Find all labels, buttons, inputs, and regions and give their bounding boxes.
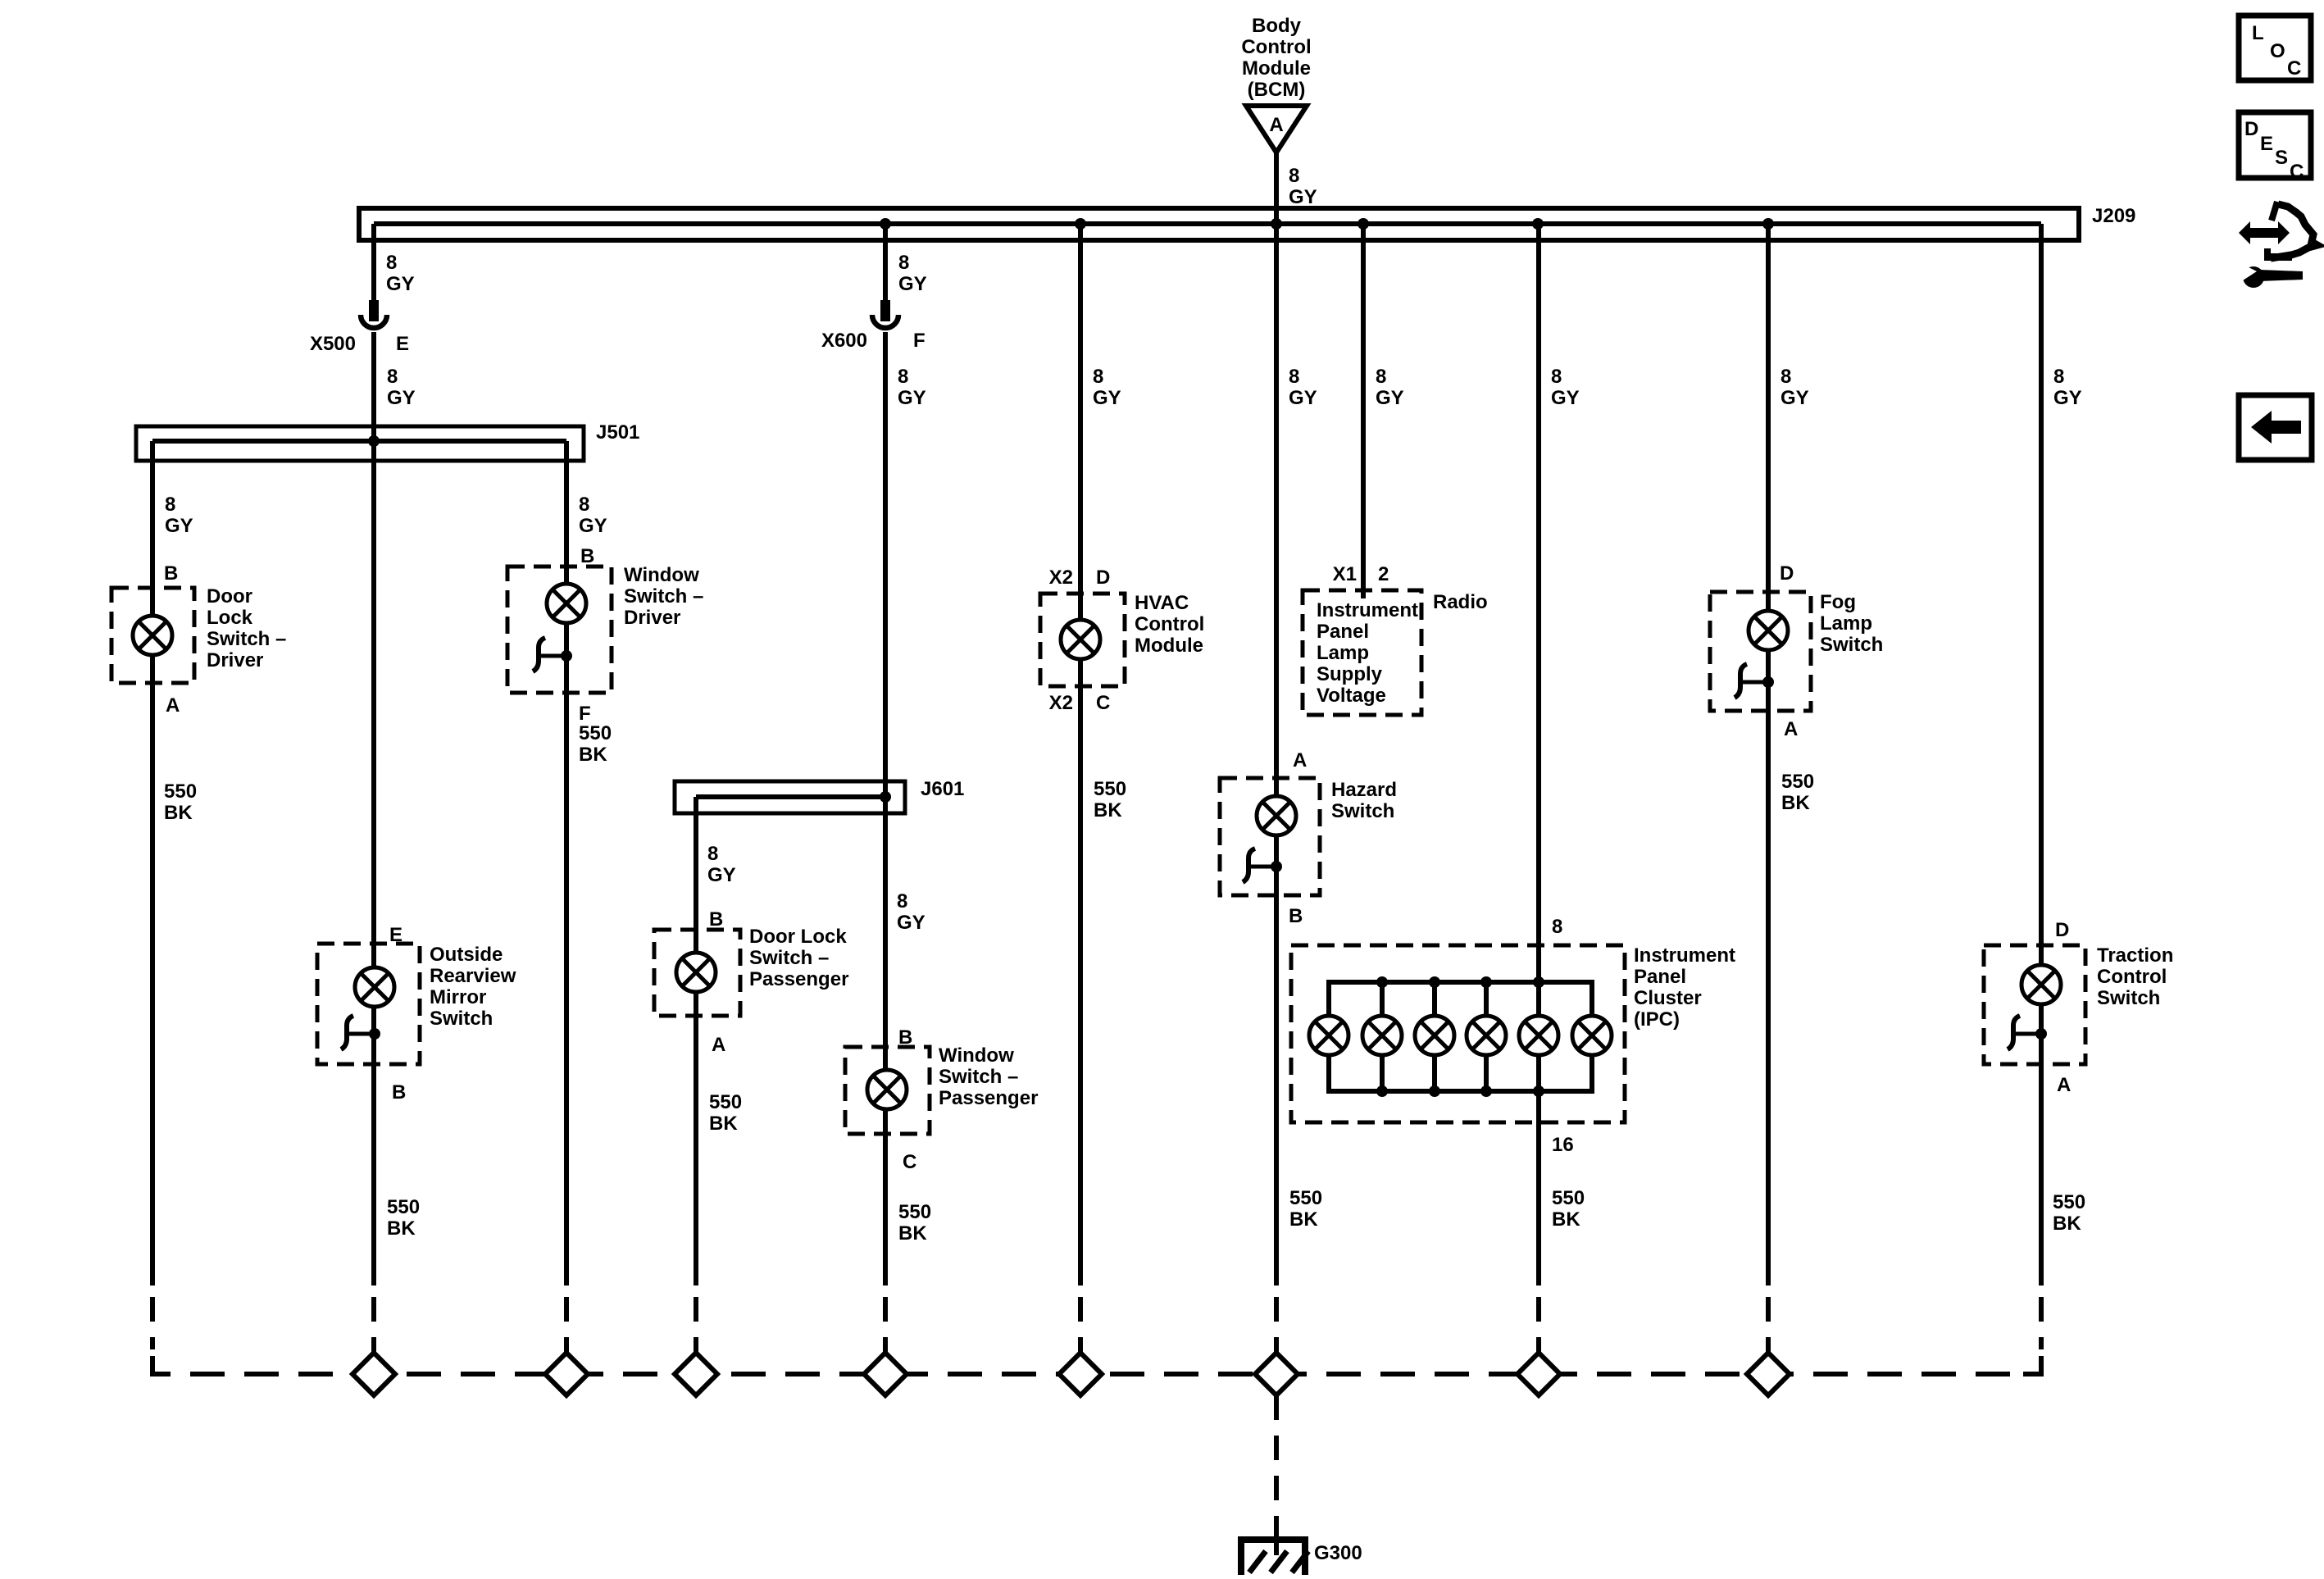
svg-text:C: C	[1096, 692, 1110, 714]
switch S5: Window Switch - Passenger	[845, 890, 1038, 1245]
svg-text:J501: J501	[596, 421, 639, 444]
svg-text:(IPC): (IPC)	[1634, 1008, 1680, 1031]
svg-text:Module: Module	[1135, 635, 1203, 657]
svg-text:Panel: Panel	[1634, 966, 1686, 988]
icon: LOC box	[2239, 16, 2311, 80]
svg-text:D: D	[1780, 562, 1794, 585]
svg-text:GY: GY	[1376, 387, 1404, 409]
wire: ground bus to G300 (dashed)	[1274, 1395, 1279, 1535]
svg-text:Door: Door	[207, 585, 252, 607]
svg-text:550: 550	[1289, 1187, 1322, 1209]
junction on J501 at X500 wire	[368, 435, 380, 447]
svg-text:D: D	[2055, 919, 2069, 941]
svg-text:8: 8	[1781, 366, 1791, 388]
svg-text:BK: BK	[1781, 792, 1810, 814]
svg-text:GY: GY	[1781, 387, 1809, 409]
node A: Body Control Module (BCM) feed	[1241, 15, 1311, 152]
svg-text:X600: X600	[821, 330, 867, 352]
ground bus wire (dashed)	[152, 1297, 2041, 1374]
lamp L1 in IPC	[1309, 1016, 1348, 1055]
svg-text:Switch –: Switch –	[939, 1066, 1018, 1088]
svg-text:E: E	[396, 333, 409, 355]
switch S1: Door Lock Switch - Driver	[111, 585, 286, 683]
svg-text:550: 550	[579, 722, 612, 744]
svg-text:Control: Control	[1241, 36, 1311, 58]
svg-text:B: B	[392, 1081, 406, 1103]
svg-text:GY: GY	[898, 387, 926, 409]
svg-text:A: A	[1784, 718, 1798, 740]
svg-text:8: 8	[165, 494, 175, 516]
svg-text:GY: GY	[165, 515, 193, 537]
switch S8: Traction Control Switch	[1984, 944, 2173, 1064]
svg-text:X1: X1	[1333, 563, 1357, 585]
svg-text:BK: BK	[1094, 799, 1122, 821]
svg-text:G300: G300	[1314, 1542, 1362, 1564]
splice pack J501	[136, 421, 639, 461]
svg-text:(BCM): (BCM)	[1248, 79, 1306, 101]
svg-text:B: B	[1289, 905, 1303, 927]
svg-text:A: A	[712, 1034, 725, 1056]
switch S7: Fog Lamp Switch	[1710, 591, 1883, 711]
wire: J501 to Outside Rearview Mirror Switch	[371, 441, 376, 1285]
svg-text:Fog: Fog	[1820, 591, 1856, 613]
wire: J209 to IPC pin 8	[1532, 218, 1580, 982]
svg-text:F: F	[579, 703, 591, 725]
svg-text:Passenger: Passenger	[749, 968, 848, 990]
svg-text:550: 550	[387, 1196, 420, 1218]
svg-text:Door Lock: Door Lock	[749, 926, 847, 948]
svg-text:C: C	[903, 1151, 916, 1173]
lamp L5 in IPC	[1519, 1016, 1558, 1055]
svg-text:550: 550	[164, 780, 197, 803]
svg-text:O: O	[2270, 40, 2285, 62]
svg-text:Switch: Switch	[430, 1008, 493, 1030]
svg-text:Lamp: Lamp	[1317, 642, 1369, 664]
wire: J601 to Door Lock Switch - Passenger	[696, 797, 742, 1285]
splice diamonds on ground bus	[352, 1353, 1790, 1395]
svg-text:8: 8	[387, 366, 398, 388]
wire: BCM A to J209	[1271, 152, 1317, 230]
svg-text:A: A	[166, 694, 180, 717]
icon: jump-to-diagram (double arrow, outline, wrench)	[2239, 202, 2317, 288]
svg-text:GY: GY	[897, 912, 926, 934]
wire: J209 to Traction Control Switch	[2041, 224, 2085, 1285]
svg-text:Driver: Driver	[207, 649, 263, 671]
svg-text:Driver: Driver	[624, 607, 680, 629]
svg-text:16: 16	[1552, 1134, 1574, 1156]
svg-text:Switch –: Switch –	[624, 585, 703, 607]
svg-text:C: C	[2290, 161, 2304, 183]
svg-text:Outside: Outside	[430, 944, 503, 966]
svg-text:Window: Window	[624, 564, 699, 586]
svg-text:GY: GY	[387, 387, 416, 409]
switch S3: Outside Rearview Mirror Switch	[317, 924, 516, 1240]
svg-text:8: 8	[1376, 366, 1386, 388]
svg-text:550: 550	[709, 1091, 742, 1113]
svg-text:Module: Module	[1242, 57, 1311, 80]
svg-text:Switch –: Switch –	[207, 628, 286, 650]
svg-text:GY: GY	[1289, 186, 1317, 208]
svg-text:Rearview: Rearview	[430, 965, 516, 987]
svg-text:Switch –: Switch –	[749, 947, 829, 969]
wire: X500 to J501	[374, 332, 416, 441]
svg-text:GY: GY	[1093, 387, 1121, 409]
svg-text:HVAC: HVAC	[1135, 592, 1189, 614]
svg-text:BK: BK	[164, 802, 193, 824]
wire: J501 to Window Switch - Driver	[566, 441, 612, 1285]
svg-text:Window: Window	[939, 1044, 1014, 1067]
svg-text:8: 8	[1093, 366, 1103, 388]
svg-text:A: A	[1293, 749, 1307, 771]
svg-text:D: D	[1096, 567, 1110, 589]
svg-text:GY: GY	[707, 864, 736, 886]
splice pack J209	[359, 205, 2135, 240]
svg-text:B: B	[164, 562, 178, 585]
connector X500 pin E	[310, 300, 409, 355]
connector X600 pin F	[821, 300, 926, 352]
svg-text:2: 2	[1378, 563, 1389, 585]
svg-text:8: 8	[386, 252, 397, 274]
svg-text:8: 8	[897, 890, 907, 912]
svg-text:X2: X2	[1049, 567, 1073, 589]
svg-text:Control: Control	[1135, 613, 1204, 635]
wire: IPC pin 16 down	[1539, 1091, 1585, 1285]
svg-text:550: 550	[1552, 1187, 1585, 1209]
svg-text:Cluster: Cluster	[1634, 987, 1702, 1009]
switch S2: Window Switch - Driver	[507, 564, 703, 693]
svg-text:BK: BK	[1552, 1208, 1580, 1231]
svg-text:BK: BK	[2053, 1213, 2081, 1235]
svg-text:8: 8	[1552, 916, 1562, 938]
svg-text:Mirror: Mirror	[430, 986, 486, 1008]
svg-text:Lamp: Lamp	[1820, 612, 1872, 635]
lamp L3 in IPC	[1415, 1016, 1454, 1055]
svg-text:Instrument: Instrument	[1634, 944, 1735, 967]
icon: DESC box	[2239, 112, 2311, 183]
svg-text:Switch: Switch	[1331, 800, 1394, 822]
svg-text:Passenger: Passenger	[939, 1087, 1038, 1109]
svg-text:S: S	[2275, 147, 2288, 169]
svg-text:J209: J209	[2092, 205, 2135, 227]
svg-text:Lock: Lock	[207, 607, 253, 629]
wire: J501 to Door Lock Switch - Driver	[152, 441, 197, 1285]
svg-text:Switch: Switch	[2097, 987, 2160, 1009]
junction on J601 at X600 wire	[880, 791, 891, 803]
svg-text:8: 8	[1551, 366, 1562, 388]
svg-text:GY: GY	[1289, 387, 1317, 409]
module U2: Radio - Instrument Panel Lamp Supply Voltage	[1303, 590, 1488, 715]
svg-text:BK: BK	[387, 1217, 416, 1240]
svg-text:Radio: Radio	[1433, 591, 1488, 613]
svg-text:A: A	[1269, 114, 1283, 136]
svg-text:8: 8	[1289, 165, 1299, 187]
wire: J209 to HVAC Control Module	[1049, 218, 1126, 1285]
svg-text:8: 8	[579, 494, 589, 516]
svg-text:GY: GY	[898, 273, 927, 295]
svg-text:Supply: Supply	[1317, 663, 1383, 685]
svg-text:550: 550	[898, 1201, 931, 1223]
svg-text:BK: BK	[1289, 1208, 1318, 1231]
svg-text:B: B	[709, 908, 723, 931]
svg-text:BK: BK	[898, 1222, 927, 1245]
lamp L2 in IPC	[1362, 1016, 1402, 1055]
module U3: Instrument Panel Cluster (IPC)	[1291, 944, 1735, 1122]
svg-text:8: 8	[898, 252, 909, 274]
lamp L4 in IPC	[1467, 1016, 1506, 1055]
svg-text:Voltage: Voltage	[1317, 685, 1386, 707]
svg-text:E: E	[2260, 133, 2273, 155]
svg-text:A: A	[2057, 1074, 2071, 1096]
svg-text:J601: J601	[921, 778, 964, 800]
ground G300	[1238, 1535, 1362, 1575]
splice pack J601	[675, 778, 964, 813]
svg-text:550: 550	[2053, 1191, 2085, 1213]
switch S4: Door Lock Switch - Passenger	[654, 926, 848, 1016]
module U1: HVAC Control Module	[1040, 592, 1204, 686]
svg-text:Panel: Panel	[1317, 621, 1369, 643]
svg-text:8: 8	[1289, 366, 1299, 388]
svg-text:550: 550	[1781, 771, 1814, 793]
svg-text:X2: X2	[1049, 692, 1073, 714]
svg-text:Instrument: Instrument	[1317, 599, 1418, 621]
lamp L6 in IPC	[1572, 1016, 1612, 1055]
wire: J209 to connector X500	[374, 224, 415, 300]
switch S6: Hazard Switch	[1220, 778, 1397, 895]
wire: J209 to Radio X1-2	[1333, 218, 1404, 598]
svg-text:550: 550	[1094, 778, 1126, 800]
svg-text:BK: BK	[709, 1113, 738, 1135]
svg-text:D: D	[2244, 118, 2258, 140]
wire: J209 to Hazard Switch	[1276, 224, 1322, 1285]
svg-text:Control: Control	[2097, 966, 2167, 988]
svg-text:8: 8	[898, 366, 908, 388]
svg-text:Body: Body	[1252, 15, 1302, 37]
svg-text:GY: GY	[579, 515, 607, 537]
wire: J209 to connector X600	[880, 218, 927, 300]
svg-text:C: C	[2287, 57, 2301, 80]
svg-text:L: L	[2252, 22, 2264, 44]
svg-text:Switch: Switch	[1820, 634, 1883, 656]
svg-text:GY: GY	[386, 273, 415, 295]
icon: back arrow box	[2239, 395, 2312, 460]
wire: X600 to J601	[885, 332, 926, 1285]
svg-text:X500: X500	[310, 333, 356, 355]
svg-text:Hazard: Hazard	[1331, 779, 1397, 801]
svg-text:GY: GY	[2053, 387, 2082, 409]
svg-text:BK: BK	[579, 744, 607, 766]
svg-text:GY: GY	[1551, 387, 1580, 409]
svg-text:Traction: Traction	[2097, 944, 2173, 967]
svg-text:8: 8	[2053, 366, 2064, 388]
wire: J209 to Fog Lamp Switch	[1762, 218, 1814, 1285]
svg-text:B: B	[580, 545, 594, 567]
svg-text:8: 8	[707, 843, 718, 865]
svg-text:F: F	[913, 330, 926, 352]
